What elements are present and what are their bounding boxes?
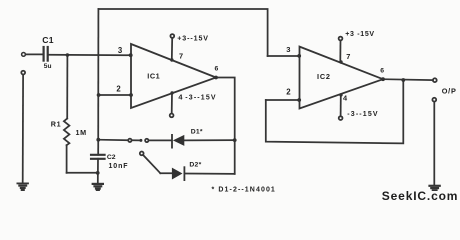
svg-text:D2*: D2* [189, 161, 201, 168]
svg-text:6: 6 [380, 67, 384, 74]
svg-text:+3--15V: +3--15V [177, 34, 209, 42]
svg-text:7: 7 [179, 51, 183, 60]
svg-text:-3--15V: -3--15V [185, 95, 216, 102]
svg-text:10nF: 10nF [109, 163, 129, 170]
svg-text:1M: 1M [76, 128, 87, 137]
svg-text:C1: C1 [42, 35, 54, 45]
svg-text:7: 7 [346, 52, 350, 61]
svg-text:R1: R1 [51, 120, 61, 129]
svg-text:3: 3 [286, 45, 290, 54]
svg-text:3: 3 [118, 46, 123, 55]
svg-text:2: 2 [116, 85, 121, 94]
svg-text:SeekIC.com: SeekIC.com [382, 189, 459, 203]
svg-text:O/P: O/P [442, 87, 457, 96]
svg-text:-3--15V: -3--15V [347, 111, 378, 118]
svg-text:* D1-2--1N4001: * D1-2--1N4001 [212, 187, 276, 194]
svg-text:IC1: IC1 [147, 72, 160, 81]
svg-text:5u: 5u [44, 63, 52, 70]
svg-text:+3 -15V: +3 -15V [345, 31, 375, 38]
svg-text:IC2: IC2 [317, 72, 331, 81]
svg-text:C2: C2 [107, 154, 116, 161]
svg-text:D1*: D1* [191, 128, 203, 135]
svg-text:2: 2 [286, 88, 291, 97]
svg-text:6: 6 [215, 65, 219, 72]
